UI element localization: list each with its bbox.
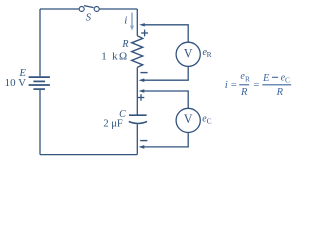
voltmeter V1 bottom lead arrowhead <box>139 78 145 82</box>
wire top-left segment <box>40 8 79 10</box>
svg-text:E: E <box>262 73 270 84</box>
wire bottom <box>40 154 137 156</box>
voltmeter U2 (e_C) circle <box>176 108 200 132</box>
svg-text:C: C <box>207 117 212 126</box>
svg-text:i: i <box>124 15 127 27</box>
capacitor C bottom plate (curved) <box>129 122 147 124</box>
polarity + (top of R) <box>141 30 148 37</box>
svg-text:R: R <box>207 50 212 59</box>
resistor R zigzag <box>132 36 143 68</box>
battery E long plate 1 <box>29 76 50 78</box>
equation i = eR/R = (E-eC)/R <box>225 71 291 98</box>
wire left vertical (battery bottom) <box>39 90 41 155</box>
voltmeter V2 top lead wire <box>143 91 188 108</box>
voltmeter V2 bottom lead arrowhead <box>139 145 145 149</box>
svg-text:R: R <box>240 87 248 98</box>
voltmeter V1 top lead wire <box>144 25 188 42</box>
voltmeter V2 top lead arrowhead <box>139 89 145 93</box>
polarity + (top of C) <box>138 94 145 101</box>
svg-text:V: V <box>184 46 193 61</box>
svg-text:=: = <box>231 80 237 91</box>
battery E short plate 1 <box>33 80 45 82</box>
svg-text:i: i <box>225 79 228 91</box>
svg-text:C: C <box>285 76 290 85</box>
svg-text:R: R <box>276 87 284 98</box>
svg-text:R: R <box>245 74 250 83</box>
voltmeter V1 top lead arrowhead <box>139 23 145 26</box>
wire right vertical (switch to resistor) <box>136 9 138 36</box>
voltmeter V2 bottom lead wire <box>143 133 188 147</box>
switch S <box>79 6 99 12</box>
battery E long plate 2 <box>29 84 50 86</box>
capacitor C top plate <box>129 114 147 116</box>
wire top-right segment <box>99 8 137 10</box>
voltmeter V1 bottom lead wire <box>143 66 188 80</box>
wire right vertical (resistor to capacitor) <box>136 67 138 114</box>
svg-text:=: = <box>253 80 259 91</box>
equation minus sign <box>272 76 278 78</box>
polarity - (bottom of C) <box>140 140 147 142</box>
battery E short plate 2 <box>33 88 45 90</box>
current arrow i <box>130 13 134 31</box>
svg-text:S: S <box>86 13 92 24</box>
svg-text:2 μF: 2 μF <box>103 118 123 129</box>
equation fraction bar 2 <box>262 84 291 86</box>
voltmeter U1 (e_R) circle <box>176 42 200 66</box>
svg-text:R: R <box>121 39 128 50</box>
polarity - (bottom of R) <box>140 72 147 74</box>
svg-text:10 V: 10 V <box>5 77 27 89</box>
svg-text:V: V <box>184 111 193 126</box>
wire right vertical (capacitor to bottom) <box>136 124 138 154</box>
equation fraction bar 1 <box>239 84 249 86</box>
svg-text:1 kΩ: 1 kΩ <box>101 51 127 63</box>
wire left vertical (battery top) <box>39 9 41 76</box>
